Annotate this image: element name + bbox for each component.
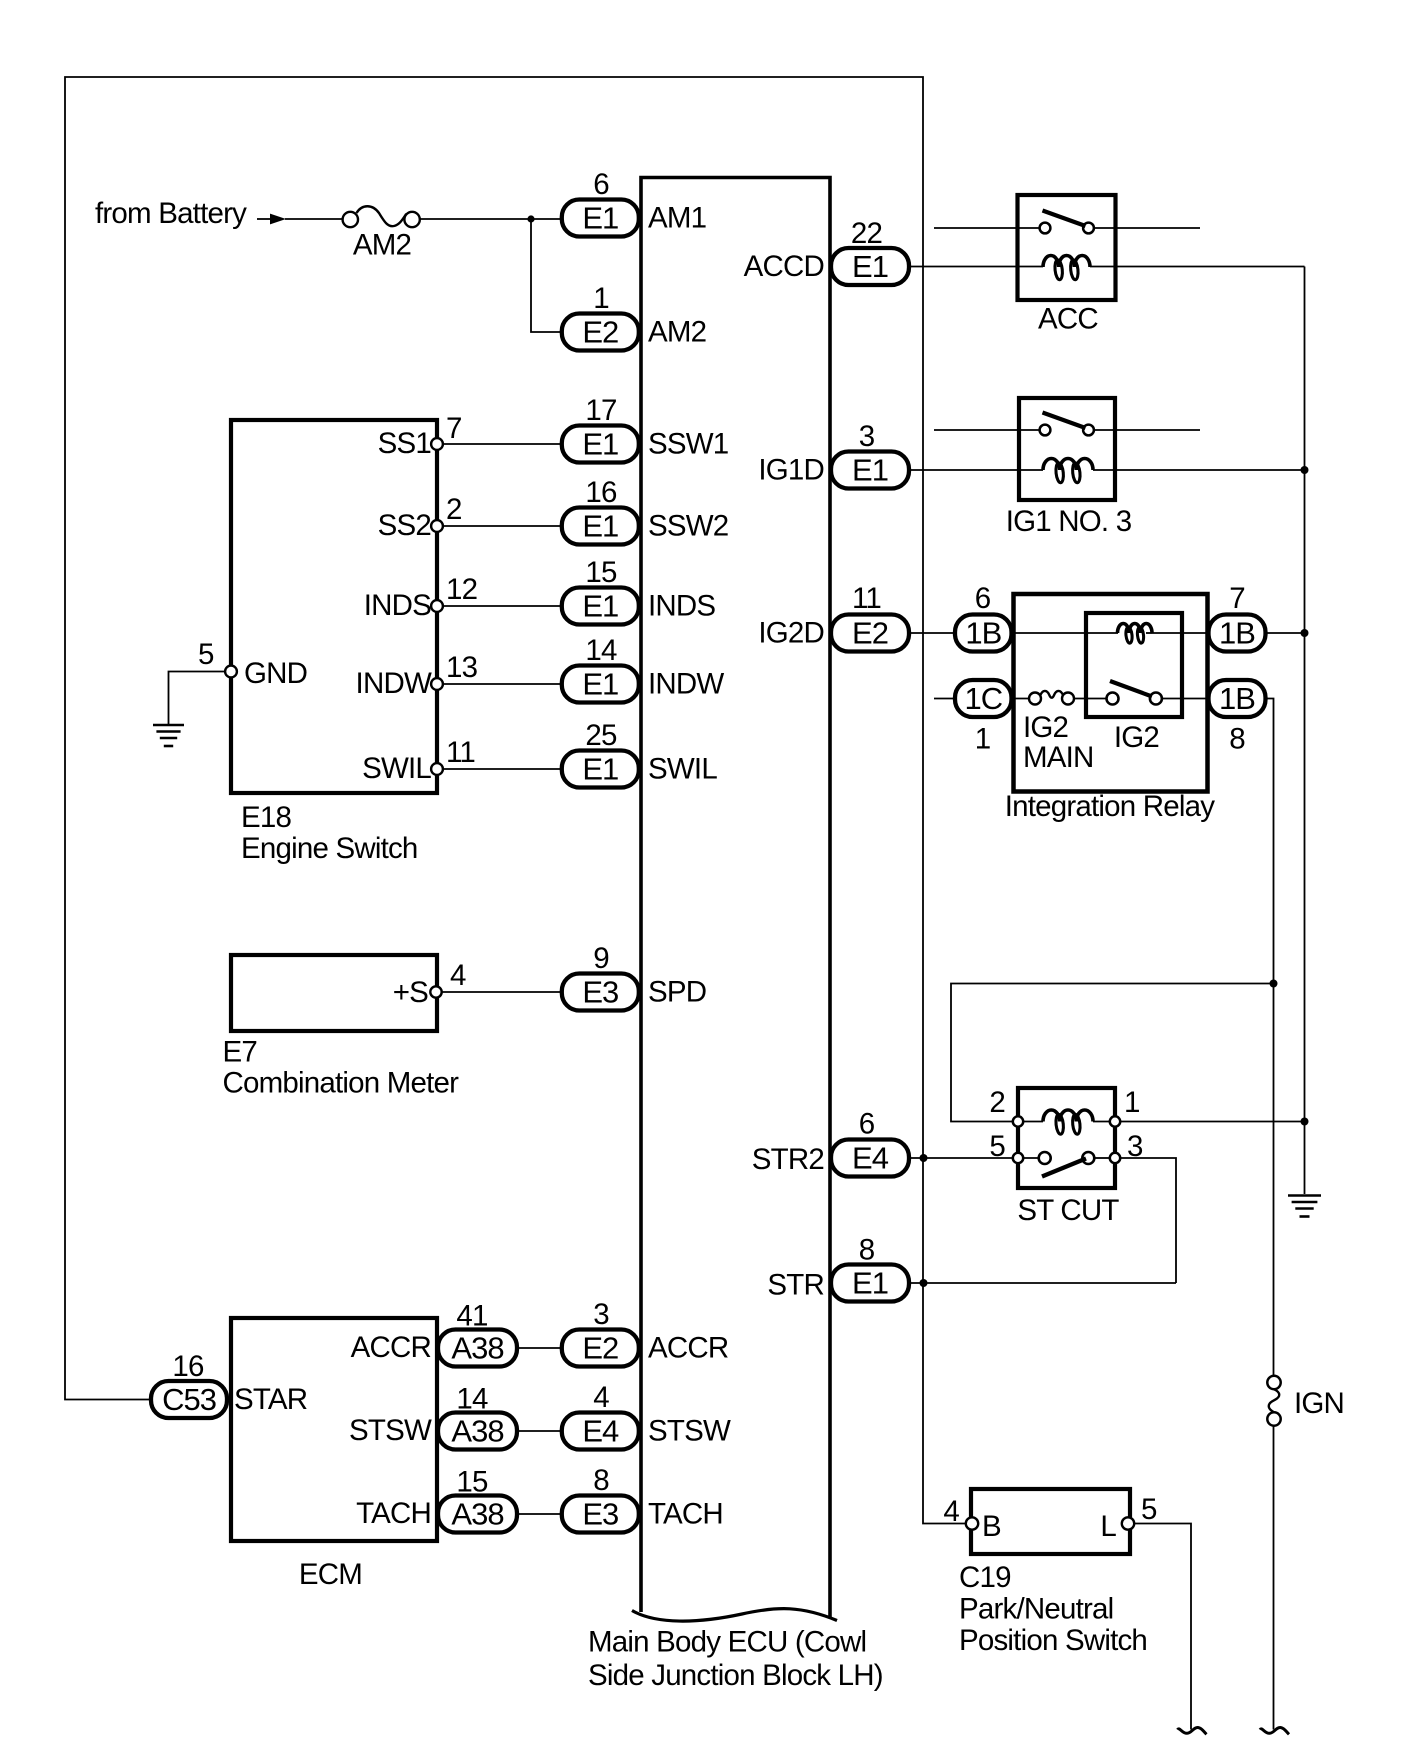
wire: fuse to IG2 switch (1075, 698, 1107, 700)
junction dot STR/loop (920, 1279, 928, 1287)
connector E1 (3) IG1D (831, 452, 909, 489)
wire under IG2 coil (1146, 632, 1152, 634)
ACC switch contacts (1040, 223, 1051, 234)
wire: down to IGN (1273, 984, 1275, 1376)
svg-text:B: B (982, 1510, 1001, 1543)
connector C53 STAR (16) (151, 1381, 227, 1418)
svg-text:25: 25 (585, 719, 617, 752)
svg-text:E3: E3 (582, 975, 618, 1010)
connector E1 (8) STR (831, 1265, 909, 1302)
svg-text:SWIL: SWIL (362, 752, 431, 785)
svg-text:E2: E2 (582, 1331, 618, 1366)
wire: E7 +S to E3 SPD (442, 991, 562, 993)
ECM box (231, 1318, 437, 1541)
wire: A38 to ECU oval y=1431 (517, 1430, 562, 1432)
wire: right bus vertical to ground (1304, 267, 1306, 1195)
wire: 1B pin8 right and down (1264, 699, 1274, 984)
svg-text:2: 2 (989, 1086, 1005, 1119)
svg-text:1C: 1C (964, 681, 1002, 716)
connector E2 (3) ACCR (562, 1330, 639, 1367)
svg-text:STR: STR (767, 1269, 824, 1302)
svg-text:17: 17 (585, 394, 616, 427)
svg-text:9: 9 (593, 942, 609, 975)
wire: IG1 switch left (934, 429, 1039, 431)
svg-text:14: 14 (585, 634, 617, 667)
junction dot STR2/loop (920, 1154, 928, 1162)
svg-text:E7: E7 (223, 1036, 257, 1069)
connector E1 (14) INDW (562, 666, 639, 703)
svg-text:4: 4 (450, 959, 466, 992)
svg-text:13: 13 (446, 651, 478, 684)
wire: IG1D E1 to IG1 relay coil (909, 469, 1044, 471)
E18 pin INDS (12) (431, 600, 443, 612)
svg-text:STR2: STR2 (752, 1143, 824, 1176)
svg-text:STAR: STAR (234, 1383, 307, 1416)
wire: stub left of 1C (934, 698, 955, 700)
IG1 relay coil (1043, 458, 1093, 470)
svg-text:C53: C53 (162, 1382, 216, 1417)
svg-text:3: 3 (593, 1298, 609, 1331)
svg-text:SSW1: SSW1 (648, 428, 728, 461)
ST CUT switch contacts (1039, 1152, 1051, 1164)
svg-text:IG1 NO. 3: IG1 NO. 3 (1006, 505, 1132, 538)
svg-text:A38: A38 (451, 1414, 503, 1449)
relay IG1 NO.3 box (1019, 398, 1115, 500)
connector E1 (16) SSW2 (562, 508, 639, 545)
connector E1 (15) INDS (562, 588, 639, 625)
relay ST CUT box (1018, 1088, 1115, 1188)
E18 pin INDW (13) (431, 678, 443, 690)
svg-text:Main Body ECU (Cowl: Main Body ECU (Cowl (588, 1626, 866, 1659)
wire: IG1 coil out to right bus (1093, 469, 1305, 471)
svg-text:12: 12 (446, 573, 477, 606)
IG2 relay coil (1118, 624, 1153, 634)
connector E1 (6) AM1 (562, 200, 639, 237)
svg-text:1: 1 (1124, 1086, 1140, 1119)
svg-text:ACCR: ACCR (351, 1331, 431, 1364)
connector 1C (1) (955, 680, 1012, 717)
svg-text:6: 6 (975, 582, 991, 615)
wire: A38 to ECU oval y=1514 (517, 1513, 562, 1515)
svg-text:ST CUT: ST CUT (1017, 1194, 1119, 1227)
inner IG2 relay box (1086, 613, 1182, 717)
svg-text:5: 5 (198, 638, 214, 671)
wire: ACC switch left (934, 227, 1039, 229)
IG1 switch contacts (1040, 425, 1051, 436)
svg-text:AM2: AM2 (648, 316, 706, 349)
connector 1B (6) (955, 615, 1012, 652)
ST CUT pin3 (1110, 1153, 1120, 1163)
svg-text:AM1: AM1 (648, 202, 706, 235)
junction dot IG2 coil/right bus (1301, 629, 1309, 637)
svg-text:+S: +S (393, 976, 428, 1009)
svg-text:Engine Switch: Engine Switch (241, 832, 418, 865)
svg-text:E1: E1 (852, 249, 888, 284)
svg-text:SS1: SS1 (378, 427, 431, 460)
ACC relay coil (1043, 255, 1090, 267)
wire: C19 L pin down to off-page (1134, 1524, 1191, 1730)
svg-text:7: 7 (446, 412, 462, 445)
C19 pin L (5) (1122, 1517, 1134, 1529)
svg-text:1: 1 (593, 282, 609, 315)
svg-text:INDW: INDW (648, 668, 724, 701)
svg-text:1B: 1B (965, 616, 1001, 651)
connector E4 (4) STSW (562, 1413, 639, 1450)
svg-text:E2: E2 (582, 315, 618, 350)
svg-text:E2: E2 (852, 616, 888, 651)
svg-text:E1: E1 (852, 1266, 888, 1301)
wire: IG2 switch to 1B pin8 (1162, 698, 1207, 700)
wire: 1B pin7 to right bus (1264, 632, 1305, 634)
svg-text:C19: C19 (959, 1561, 1011, 1594)
from Battery arrow (257, 218, 271, 220)
svg-text:ACCD: ACCD (744, 250, 824, 283)
svg-text:STSW: STSW (349, 1414, 432, 1447)
svg-text:TACH: TACH (356, 1497, 431, 1530)
E18 pin SWIL (11) (431, 763, 443, 775)
svg-text:L: L (1100, 1510, 1116, 1543)
E18 pin SS1 (7) (431, 438, 443, 450)
svg-text:Park/Neutral: Park/Neutral (959, 1593, 1113, 1626)
wire: 1C to IG2 MAIN fuse (1012, 698, 1030, 700)
wire: E18 pin to ECU oval y=769 (443, 768, 562, 770)
wire: IG2 coil to 1B pin7 (1152, 632, 1208, 634)
wire: IG2D E2 to 1B (909, 632, 956, 634)
svg-text:INDS: INDS (364, 589, 431, 622)
wire: IGN down to off-page (1273, 1426, 1275, 1730)
svg-text:STSW: STSW (648, 1415, 731, 1448)
svg-text:SS2: SS2 (378, 509, 431, 542)
relay ACC box (1018, 195, 1116, 300)
C19 pin B (4) (966, 1517, 978, 1529)
svg-text:E1: E1 (582, 667, 618, 702)
junction dot pin1/right bus (1301, 1118, 1309, 1126)
svg-text:MAIN: MAIN (1023, 741, 1094, 774)
svg-text:1: 1 (975, 723, 991, 756)
connector E1 (22) ACCD (831, 248, 909, 285)
E18 pin SS2 (2) (431, 520, 443, 532)
svg-text:A38: A38 (451, 1331, 503, 1366)
svg-text:ECM: ECM (299, 1558, 362, 1591)
connector E1 (25) SWIL (562, 751, 639, 788)
wire: ACCD E1 to ACC relay coil (909, 266, 1044, 268)
wire: across to ST CUT pin2 (951, 984, 1274, 1122)
svg-text:15: 15 (456, 1466, 488, 1499)
svg-text:8: 8 (593, 1464, 609, 1497)
svg-text:SSW2: SSW2 (648, 510, 728, 543)
svg-text:14: 14 (456, 1383, 488, 1416)
svg-text:IG2: IG2 (1114, 721, 1159, 754)
wire: battery to fuse AM2 (285, 218, 343, 220)
svg-text:A38: A38 (451, 1497, 503, 1532)
svg-text:4: 4 (593, 1381, 609, 1414)
connector E4 (6) STR2 (831, 1140, 909, 1177)
svg-text:5: 5 (989, 1130, 1005, 1163)
svg-text:SPD: SPD (648, 976, 706, 1009)
svg-text:15: 15 (585, 556, 617, 589)
svg-text:SWIL: SWIL (648, 753, 717, 786)
svg-text:Combination Meter: Combination Meter (223, 1067, 460, 1100)
svg-text:E1: E1 (582, 752, 618, 787)
wire: STR2 E4 to ST CUT pin5 (909, 1157, 1013, 1159)
wire: main loop from C53 STAR up-over to right side down to C19 B pin (65, 77, 966, 1524)
wire: ST CUT coil leads (1023, 1121, 1043, 1123)
connector E3 (9) SPD (562, 974, 639, 1011)
svg-text:Position Switch: Position Switch (959, 1624, 1147, 1657)
svg-text:GND: GND (244, 657, 307, 690)
wire: ST CUT pin3 down to STR (1120, 1158, 1176, 1283)
Main Body ECU box (wavy bottom) (641, 178, 830, 1619)
svg-text:8: 8 (859, 1234, 875, 1267)
wire: E18 pin to ECU oval y=526 (443, 525, 562, 527)
E7 pin +S (4) (430, 986, 441, 997)
ST CUT pin1 (1110, 1116, 1120, 1126)
wire: ACC coil out to right bus (1090, 266, 1305, 268)
connector E1 (17) SSW1 (562, 426, 639, 463)
svg-text:1B: 1B (1219, 681, 1255, 716)
svg-text:from Battery: from Battery (95, 197, 247, 230)
svg-text:3: 3 (1127, 1130, 1143, 1163)
junction dot IG1 coil/right bus (1301, 466, 1309, 474)
svg-text:IG2: IG2 (1023, 711, 1068, 744)
svg-text:ACCR: ACCR (648, 1332, 728, 1365)
svg-text:E1: E1 (582, 589, 618, 624)
svg-text:INDS: INDS (648, 590, 715, 623)
squiggle off-page (C19 L) (1178, 1728, 1207, 1735)
svg-text:E18: E18 (241, 801, 291, 834)
svg-text:E3: E3 (582, 1497, 618, 1532)
E18 Engine Switch box (231, 420, 437, 793)
svg-text:6: 6 (859, 1108, 875, 1141)
svg-text:22: 22 (851, 217, 882, 250)
connector IGN (1267, 1376, 1280, 1389)
svg-text:1B: 1B (1219, 616, 1255, 651)
svg-text:E4: E4 (852, 1141, 889, 1176)
svg-text:2: 2 (446, 493, 462, 526)
connector E3 (8) TACH (562, 1496, 639, 1533)
svg-text:3: 3 (859, 420, 875, 453)
svg-text:INDW: INDW (356, 667, 432, 700)
svg-text:41: 41 (456, 1300, 487, 1333)
connector 1B (7) (1209, 615, 1266, 652)
svg-text:Side Junction Block LH): Side Junction Block LH) (588, 1659, 883, 1692)
ground symbol (right bus) (1288, 1194, 1321, 1197)
wire: ST CUT switch leads (1023, 1157, 1039, 1159)
IG2 switch contacts (1107, 693, 1119, 705)
wire: ST CUT pin1 to right bus (1120, 1121, 1304, 1123)
connector A38 (15) (438, 1496, 517, 1533)
svg-text:4: 4 (943, 1495, 959, 1528)
svg-text:E1: E1 (582, 509, 618, 544)
svg-text:TACH: TACH (648, 1498, 723, 1531)
svg-text:ACC: ACC (1038, 303, 1098, 336)
wire: E18 pin to ECU oval y=606 (443, 605, 562, 607)
connector A38 (41) (438, 1330, 517, 1367)
svg-text:8: 8 (1229, 723, 1245, 756)
squiggle off-page (IGN) (1260, 1728, 1289, 1735)
connector E2 (1) AM2 (562, 314, 639, 351)
svg-text:IGN: IGN (1294, 1387, 1344, 1420)
wire: E18 pin to ECU oval y=684 (443, 683, 562, 685)
svg-text:IG2D: IG2D (758, 617, 824, 650)
svg-text:E1: E1 (582, 201, 618, 236)
svg-text:7: 7 (1229, 582, 1245, 615)
svg-text:11: 11 (446, 736, 475, 769)
svg-text:Integration Relay: Integration Relay (1005, 790, 1215, 823)
svg-text:E1: E1 (852, 453, 888, 488)
Integration Relay box (1014, 594, 1208, 792)
wire: IG1 switch right (1094, 429, 1200, 431)
C19 Park/Neutral Position Switch box (971, 1489, 1130, 1554)
svg-text:IG1D: IG1D (758, 454, 824, 487)
wire: A38 to ECU oval y=1348 (517, 1347, 562, 1349)
connector 1B (8) (1209, 680, 1266, 717)
svg-text:16: 16 (172, 1350, 204, 1383)
wire: fuse to E1 AM1 (420, 218, 562, 220)
svg-text:6: 6 (593, 168, 609, 201)
svg-text:E1: E1 (582, 427, 618, 462)
svg-text:E4: E4 (582, 1414, 619, 1449)
wire: ACC switch right (1094, 227, 1200, 229)
junction dot ST CUT feed (1270, 980, 1278, 988)
fuse IG2 MAIN (1029, 693, 1041, 705)
svg-text:11: 11 (852, 582, 881, 615)
connector E2 (11) IG2D (831, 615, 909, 652)
E7 Combination Meter box (231, 955, 437, 1031)
svg-text:16: 16 (585, 476, 617, 509)
junction dot battery split (527, 215, 534, 222)
wire: down to E2 AM2 (531, 219, 562, 332)
ST CUT pin5 (1013, 1153, 1023, 1163)
E18 pin GND (5) (225, 666, 237, 678)
ST CUT pin2 (1013, 1116, 1023, 1126)
svg-text:5: 5 (1141, 1493, 1157, 1526)
fuse AM2 (343, 212, 358, 227)
wire: STR E1 to pin3 drop (909, 1282, 1177, 1284)
wire: 1B to IG2 relay coil (1012, 632, 1119, 634)
ground symbol (E18 GND) (153, 724, 184, 727)
svg-text:AM2: AM2 (353, 229, 411, 262)
connector A38 (14) (438, 1413, 517, 1450)
ST CUT coil (1043, 1110, 1093, 1122)
wire: E18 pin to ECU oval y=444 (443, 443, 562, 445)
wire: GND pin to ground (169, 672, 226, 725)
